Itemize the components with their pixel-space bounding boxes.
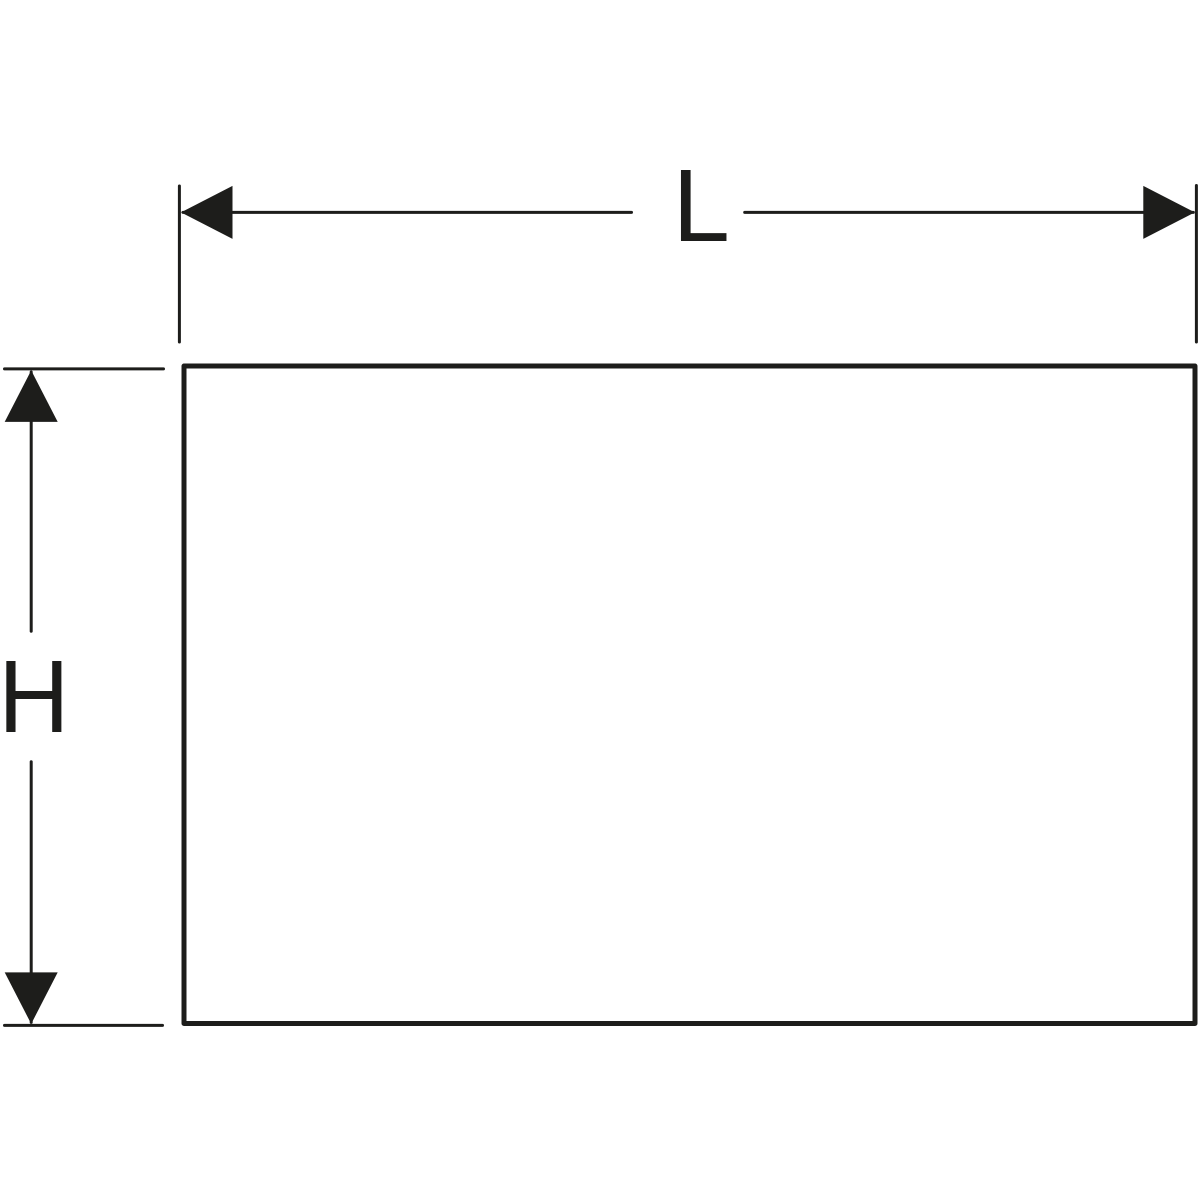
dimension line H bottom segment [30, 762, 33, 1023]
extension line right of L dimension [1195, 186, 1198, 343]
extension line left of L dimension [178, 186, 181, 342]
dimension line L left segment [183, 211, 632, 214]
arrowhead H top [5, 370, 58, 422]
svg-text:L: L [673, 148, 730, 263]
dimension line H top segment [30, 372, 33, 631]
dimension line L right segment [745, 211, 1194, 214]
svg-text:H: H [0, 639, 69, 754]
arrowhead H bottom [5, 972, 58, 1024]
panel outline rectangle [184, 366, 1195, 1024]
extension line top of H dimension [5, 367, 164, 370]
arrowhead L right [1143, 186, 1195, 239]
arrowhead L left [181, 186, 233, 239]
extension line bottom of H dimension [5, 1024, 163, 1027]
